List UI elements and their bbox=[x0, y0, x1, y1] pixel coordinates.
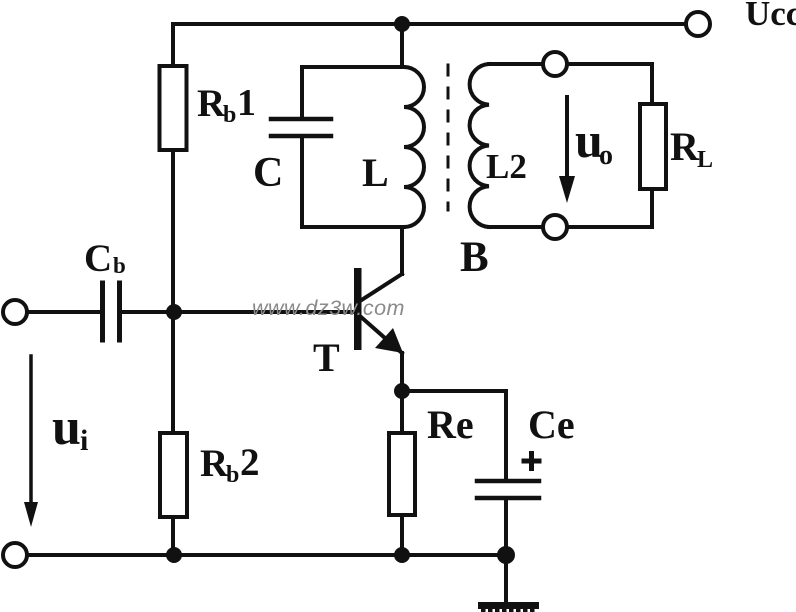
svg-text:B: B bbox=[460, 234, 489, 281]
svg-text:i: i bbox=[80, 424, 88, 457]
svg-text:T: T bbox=[313, 335, 340, 380]
svg-text:R: R bbox=[200, 442, 229, 485]
svg-text:L: L bbox=[697, 147, 713, 173]
svg-text:Re: Re bbox=[427, 402, 474, 447]
svg-text:L2: L2 bbox=[486, 147, 527, 186]
svg-text:R: R bbox=[197, 82, 226, 125]
svg-text:u: u bbox=[52, 399, 81, 456]
svg-text:o: o bbox=[599, 140, 613, 171]
svg-text:Ucc: Ucc bbox=[745, 0, 796, 33]
svg-text:C: C bbox=[84, 237, 112, 280]
svg-text:b: b bbox=[226, 462, 239, 488]
svg-text:Ce: Ce bbox=[528, 402, 575, 447]
svg-text:R: R bbox=[670, 124, 700, 169]
svg-text:b: b bbox=[223, 102, 236, 128]
svg-text:www.dz3w.com: www.dz3w.com bbox=[252, 296, 405, 320]
svg-text:b: b bbox=[113, 253, 126, 278]
svg-text:2: 2 bbox=[240, 441, 260, 484]
svg-text:L: L bbox=[362, 150, 389, 195]
svg-text:1: 1 bbox=[237, 82, 256, 124]
svg-text:C: C bbox=[253, 150, 283, 196]
